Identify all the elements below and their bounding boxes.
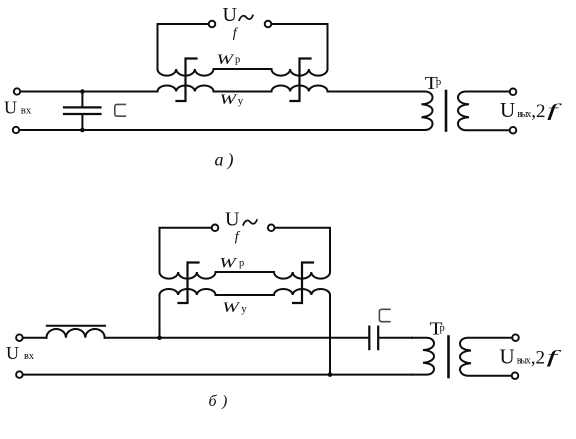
core left (б) — [179, 263, 199, 304]
terminal: output top (б) — [512, 334, 519, 341]
wire: top rail middle segment (a) — [214, 91, 272, 93]
winding Wp right (a) — [272, 69, 328, 76]
capacitor C top lead (a) — [81, 92, 83, 108]
label Wp (a) — [217, 52, 241, 68]
svg-text:U: U — [225, 208, 240, 230]
svg-text:,2: ,2 — [531, 348, 545, 369]
label Wy (б) — [222, 300, 247, 316]
wire: bottom rail (б) — [23, 374, 412, 376]
svg-text:U: U — [6, 343, 19, 363]
wire: source left branch (б) — [160, 228, 212, 272]
terminal: source left (б) — [212, 225, 219, 232]
winding Wy left (б) — [160, 289, 216, 295]
inductor L winding (б) — [47, 329, 105, 338]
label ~ (б source) — [243, 220, 257, 225]
wire: Wp bridge (б) — [216, 271, 275, 273]
wire: Wp bridge (a) — [214, 68, 272, 70]
label Uвх (a) — [4, 98, 32, 118]
winding Wp right (б) — [274, 272, 330, 279]
capacitor C plates (a) — [64, 107, 101, 114]
transformer Tp primary (б) — [412, 338, 434, 375]
wire: source left branch (a) — [158, 24, 209, 69]
junction: capacitor bottom (a) — [80, 128, 85, 133]
svg-text:б): б) — [209, 393, 233, 410]
wire: top rail left segment (a) — [20, 91, 157, 93]
svg-text:f: f — [547, 347, 564, 367]
wire: top rail middle (б) — [105, 337, 369, 339]
svg-text:р: р — [239, 258, 244, 269]
label Wp (б) — [219, 256, 244, 272]
capacitor C bottom lead (a) — [81, 114, 83, 130]
svg-text:W: W — [220, 92, 238, 108]
svg-text:U: U — [500, 345, 515, 369]
svg-text:U: U — [500, 98, 515, 122]
label Uвых,2f (a) — [500, 98, 564, 122]
wire: top rail right segment (a) — [328, 91, 413, 93]
terminal: output top (a) — [510, 89, 517, 96]
winding Wy right (б) — [274, 289, 330, 295]
terminal: input top (a) — [14, 88, 20, 94]
svg-text:U: U — [4, 98, 17, 118]
svg-text:f: f — [235, 229, 241, 244]
terminal: output bottom (б) — [512, 372, 519, 379]
transformer Tp secondary (б) — [460, 338, 512, 376]
svg-text:вх: вх — [21, 105, 32, 117]
wire: capacitor to transformer (б) — [379, 337, 412, 339]
wire: Wy right drop (б) — [329, 295, 331, 375]
svg-text:вх: вх — [24, 350, 34, 362]
inductor L core bar (б) — [47, 325, 105, 327]
label Uвых,2f (б) — [500, 345, 564, 369]
label C (a) — [115, 104, 126, 116]
terminal: source right (б) — [268, 225, 275, 232]
transformer Tp primary (a) — [410, 92, 433, 131]
transformer Tp core (б) — [447, 337, 450, 378]
label Tp (a) — [425, 73, 442, 93]
wire: Wy left drop (б) — [159, 295, 161, 338]
svg-text:U: U — [223, 4, 238, 26]
wire: Wy bridge (б) — [216, 294, 275, 296]
junction: capacitor top (a) — [80, 89, 85, 94]
svg-text:f: f — [233, 26, 239, 41]
label ~ (a source) — [239, 15, 253, 20]
winding Wy left (a) — [158, 85, 214, 91]
svg-text:р: р — [440, 323, 445, 334]
wire: source right branch (б) — [275, 228, 331, 272]
terminal: source left (a) — [209, 21, 216, 28]
svg-text:р: р — [235, 54, 240, 65]
label Uвх (б) — [6, 343, 34, 363]
label Tp (б) — [430, 318, 445, 338]
label Wy (a) — [220, 92, 244, 108]
svg-text:f: f — [547, 100, 564, 120]
core right (б) — [293, 263, 313, 304]
junction: Wy left drop on top rail (б) — [157, 335, 162, 340]
junction: Wy right drop on bottom rail (б) — [328, 372, 333, 377]
svg-text:вых: вых — [517, 356, 531, 367]
svg-text:,2: ,2 — [531, 101, 545, 122]
terminal: output bottom (a) — [510, 127, 517, 134]
winding Wp left (б) — [160, 272, 216, 279]
wire: bottom rail (a) — [19, 129, 412, 131]
svg-text:вых: вых — [517, 109, 531, 120]
transformer Tp core (a) — [445, 91, 448, 131]
winding Wp left (a) — [158, 69, 214, 76]
transformer Tp secondary (a) — [458, 92, 510, 131]
terminal: source right (a) — [265, 21, 272, 28]
terminal: input bottom (a) — [13, 127, 19, 133]
svg-text:у: у — [241, 303, 247, 315]
label C (б) — [379, 309, 390, 321]
wire: source right branch (a) — [271, 24, 327, 69]
svg-text:а): а) — [215, 150, 238, 171]
terminal: input bottom (б) — [16, 371, 23, 378]
svg-text:р: р — [436, 76, 442, 88]
svg-text:W: W — [219, 256, 237, 272]
core right (a) — [291, 59, 311, 102]
capacitor C plates (б) — [369, 327, 378, 350]
svg-text:у: у — [238, 95, 244, 107]
svg-text:W: W — [222, 300, 240, 316]
terminal: input top (б) — [16, 334, 23, 341]
svg-text:W: W — [217, 52, 235, 68]
winding Wy right (a) — [272, 85, 328, 91]
core left (a) — [177, 59, 197, 102]
wire: top rail left of inductor (б) — [23, 337, 47, 339]
